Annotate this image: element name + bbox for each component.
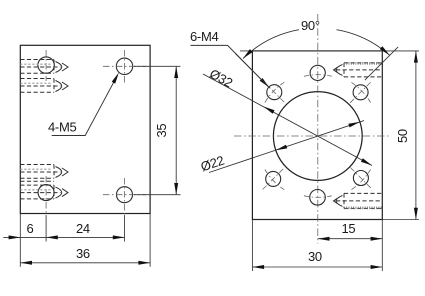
side drill C thread line xyxy=(20,168,52,170)
vertical centerline xyxy=(317,14,319,244)
svg-text:50: 50 xyxy=(395,129,410,143)
side drill D tip xyxy=(56,187,69,198)
hole H2 bolt arc xyxy=(265,82,284,102)
hole H5 circle (lower right) xyxy=(353,171,368,186)
label 4-M5 leader arrowhead xyxy=(112,73,119,84)
svg-text:6-M4: 6-M4 xyxy=(190,29,218,44)
dimension 50 arrow up xyxy=(414,51,418,63)
dimension 30 line xyxy=(252,266,382,268)
hole BR vertical centerline xyxy=(124,178,126,215)
svg-text:4-M5: 4-M5 xyxy=(48,120,76,135)
dimension 36 line xyxy=(20,262,150,264)
hole BL vertical centerline xyxy=(45,176,47,215)
dimension 30 left arrow xyxy=(252,265,264,269)
label 6-M4 leader xyxy=(191,45,270,87)
main bore circle xyxy=(273,92,362,181)
dimension angle 90 right arrowhead xyxy=(380,46,390,55)
dimension 6 outside arrow xyxy=(9,235,21,239)
dimension angle 90 arc left xyxy=(243,30,299,59)
svg-text:35: 35 xyxy=(154,124,169,138)
dimension 35 extension line top xyxy=(134,65,181,67)
hole H3 bolt arc xyxy=(351,82,370,102)
dimension 50 line xyxy=(415,51,417,220)
side hole top hidden outline xyxy=(336,63,382,77)
dimension 6/24 extension left edge xyxy=(19,214,21,267)
svg-text:24: 24 xyxy=(76,221,90,236)
side hole bottom thread ticks xyxy=(344,206,382,209)
side drill B thread line xyxy=(20,82,52,84)
horizontal centerline xyxy=(234,135,390,137)
dimension 15 left arrow xyxy=(318,237,330,241)
dimension 24 right arrow xyxy=(113,235,125,239)
side drill A tip xyxy=(56,62,69,73)
dimension angle 90 right leg xyxy=(365,47,398,80)
dimension D32 lower arrowhead xyxy=(361,158,372,165)
dimension 35 arrow down xyxy=(174,183,178,195)
dimension 30 extension left xyxy=(251,220,253,272)
side drill C hidden outline xyxy=(20,165,60,179)
dimension 36 right arrow xyxy=(138,261,150,265)
side drill A hidden outline xyxy=(20,60,60,74)
dimension 35 line xyxy=(175,66,177,194)
side hole bottom tip xyxy=(334,195,343,206)
dimension 36 left arrow xyxy=(20,261,32,265)
hole TL vertical centerline xyxy=(45,50,47,81)
bottom edge extension line xyxy=(382,219,419,221)
hole BR circle xyxy=(117,187,133,203)
dimension 15 line xyxy=(318,238,383,240)
hole H1 circle (top) xyxy=(310,65,325,80)
hole H6 circle (bottom) xyxy=(310,190,326,206)
side drill B tip xyxy=(56,81,69,92)
hole H3 radial centerline xyxy=(350,81,372,103)
hole H3 circle (upper right) xyxy=(353,85,368,100)
svg-text:Ø32: Ø32 xyxy=(207,66,235,91)
dimension D32 upper arrowhead xyxy=(264,107,275,114)
svg-text:36: 36 xyxy=(76,246,90,261)
dimension 35 extension line bottom xyxy=(134,194,181,196)
dimension 15 extension right xyxy=(381,220,383,272)
hole TR vertical centerline xyxy=(124,50,126,84)
side hole top thread ticks xyxy=(344,62,382,65)
side drill C tip xyxy=(56,167,69,178)
hole H5 bolt arc xyxy=(351,169,370,189)
hole BL circle xyxy=(38,185,54,201)
dimension D22 lower arrowhead xyxy=(276,145,288,151)
side drill D thread line xyxy=(20,189,52,191)
svg-text:15: 15 xyxy=(342,221,356,236)
hole H2 circle (upper left) xyxy=(267,85,282,100)
side drill D extra hidden row xyxy=(20,180,54,182)
side drill B hidden outline xyxy=(20,79,60,93)
hole H5 radial centerline xyxy=(350,168,372,190)
left view outline xyxy=(20,45,150,213)
svg-text:6: 6 xyxy=(27,221,34,236)
dimension D22 line xyxy=(209,121,364,173)
hole H6 bolt arc xyxy=(304,196,332,198)
dimension 50 arrow down xyxy=(414,208,418,220)
dimension 24 left arrow xyxy=(46,235,58,239)
top edge extension line xyxy=(240,50,419,52)
svg-text:Ø22: Ø22 xyxy=(199,153,226,175)
hole TR horizontal centerline xyxy=(103,65,146,67)
hole BR horizontal centerline xyxy=(103,194,146,196)
dimension angle 90 left leg xyxy=(235,53,270,88)
side drill A thread line xyxy=(20,63,52,65)
dimension 35 arrow up xyxy=(174,66,178,78)
svg-text:30: 30 xyxy=(308,249,322,264)
dimension 6/24 extension hole BL xyxy=(45,215,47,242)
dimension 30 right arrow xyxy=(371,265,383,269)
dimension angle 90 left arrowhead xyxy=(243,49,253,58)
dimension angle 90 arc right xyxy=(337,30,390,56)
label 4-M5 leader xyxy=(52,75,118,135)
side hole bottom hidden outline xyxy=(336,193,382,208)
hole H1 bolt arc xyxy=(304,75,332,77)
label 6-M4 arrowhead xyxy=(260,78,270,88)
dimension 36 extension right edge xyxy=(149,214,151,267)
svg-text:90°: 90° xyxy=(301,18,320,33)
dimension 15 right arrow xyxy=(371,237,383,241)
dimension 6/24 extension hole BR xyxy=(124,215,126,242)
hole TL circle xyxy=(38,57,54,73)
dimension D22 upper arrowhead xyxy=(348,122,360,128)
side drill D hidden outline xyxy=(20,185,60,199)
hole H2 radial centerline xyxy=(264,82,286,104)
dimension D32 line xyxy=(203,74,372,166)
hole H4 bolt arc xyxy=(265,170,284,190)
hole TR circle xyxy=(116,58,132,74)
hole H4 radial centerline xyxy=(263,167,285,189)
hole H4 circle (lower left) xyxy=(266,171,281,186)
dimension 6/24 line xyxy=(3,236,124,238)
right view outline xyxy=(252,51,382,220)
side hole top tip xyxy=(334,64,343,75)
